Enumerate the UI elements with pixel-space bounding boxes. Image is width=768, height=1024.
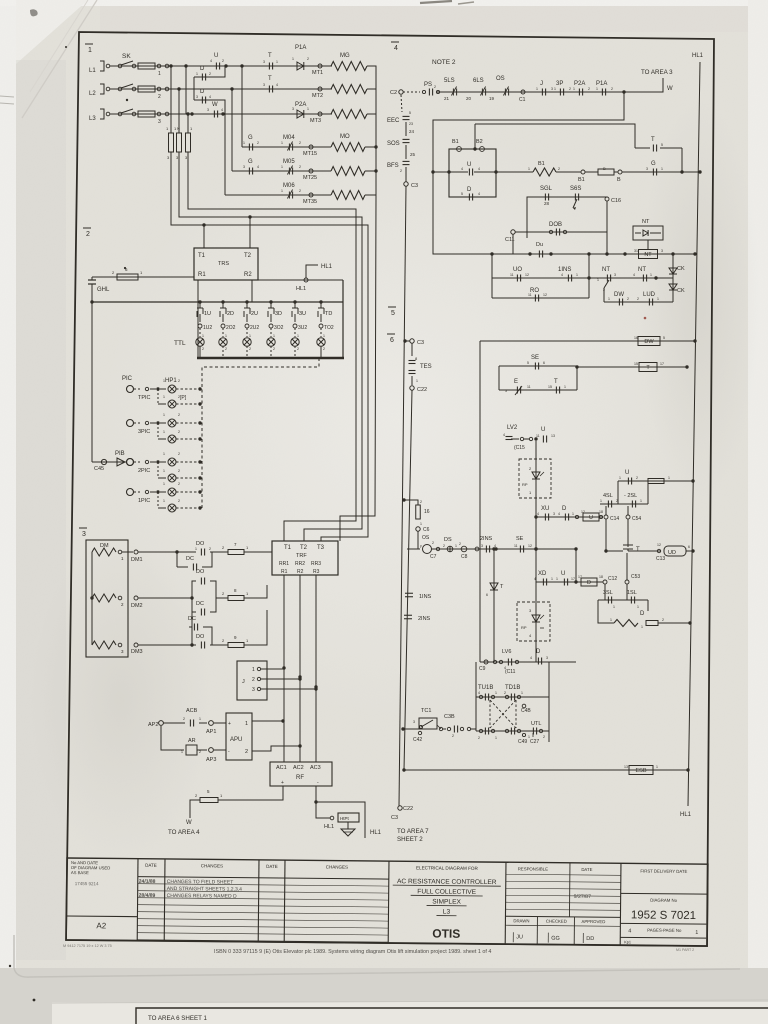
resistor MO row2 [331,167,365,176]
svg-text:1: 1 [307,107,309,111]
svg-text:PIB: PIB [115,451,125,457]
resistor MO row1 [331,134,365,152]
svg-text:16: 16 [634,336,638,340]
svg-text:1U: 1U [204,311,211,317]
wire U row upper [618,479,695,504]
svg-text:RP: RP [521,625,527,630]
svg-text:2: 2 [252,677,255,683]
svg-text:1: 1 [420,522,422,526]
svg-text:SK: SK [122,53,131,60]
svg-text:19: 19 [489,96,495,101]
svg-text:FULL COLLECTIVE: FULL COLLECTIVE [417,888,476,896]
tiny mark bottom right [676,948,694,952]
scan speck2 [124,267,126,269]
wire DOB row [515,232,607,238]
svg-text:L1: L1 [89,68,96,74]
svg-text:C22: C22 [417,387,427,393]
svg-text:DM2: DM2 [131,603,143,609]
svg-text:TO AREA 4: TO AREA 4 [168,829,200,836]
svg-text:MT3: MT3 [310,118,321,124]
node lv6 a [493,660,502,663]
node C42 [413,731,422,743]
resistor 7 [222,542,249,555]
svg-text:1: 1 [455,544,457,548]
wire DO3-res9 [210,644,228,646]
fuse N1 vertical [166,126,177,152]
svg-text:2PIC: 2PIC [138,468,150,474]
label [P] [180,395,187,401]
label TO AREA 4 [168,829,200,836]
svg-text:BFS: BFS [387,163,399,169]
fuse labels [167,155,188,160]
contact U [210,53,224,70]
svg-text:4: 4 [534,577,536,581]
thermal element 1U [196,300,213,358]
svg-text:1: 1 [495,691,497,695]
wire top row [403,91,624,93]
svg-text:4: 4 [561,273,563,277]
svg-text:AC3: AC3 [310,765,321,771]
svg-text:R1: R1 [281,569,288,575]
wire row L2 [110,88,170,90]
contact DO row3 [196,634,205,649]
contact 3SL [603,590,615,609]
wire TG box [680,148,701,174]
svg-text:1: 1 [608,297,610,301]
svg-text:C1: C1 [519,97,526,103]
node MT25 [303,169,317,181]
svg-text:y: y [420,544,422,548]
node AP3 [197,748,216,763]
contact PS [422,82,439,96]
wire MO bus right [365,147,376,195]
svg-text:2: 2 [273,347,275,351]
thermal element 2D [219,300,236,358]
node DM1 [131,550,143,563]
svg-text:T2: T2 [244,253,252,259]
wire C6 down [417,531,419,549]
svg-text:1: 1 [600,499,602,503]
svg-text:RR1: RR1 [279,561,289,567]
thermal element TD [317,300,334,358]
pilot lamp row 2PIC [127,452,202,482]
svg-text:11: 11 [528,293,532,297]
contact T right [635,137,682,152]
svg-text:APU: APU [230,737,242,743]
svg-text:4: 4 [633,273,635,277]
svg-text:11: 11 [536,434,540,438]
contact B2 coil [476,139,484,151]
ground HL1 device [324,813,359,830]
svg-text:DW: DW [614,292,624,298]
svg-text:1: 1 [416,379,418,383]
contact C3B [437,714,476,738]
svg-text:18: 18 [599,510,603,514]
node L1-c [224,64,227,67]
svg-text:4: 4 [478,691,480,695]
svg-text:3U: 3U [299,311,306,317]
second sheet top edge [52,1000,768,1003]
svg-text:4: 4 [537,512,539,516]
svg-text:1: 1 [163,452,165,456]
wire crossover left [475,662,477,697]
paper shade left [16,60,66,960]
wire row L3 [110,113,170,115]
wire RF minus [314,786,330,818]
svg-text:2: 2 [178,379,180,383]
svg-text:2: 2 [662,618,664,622]
label TO AREA 7 [397,828,429,835]
svg-text:13: 13 [551,434,555,438]
svg-text:AC1: AC1 [276,765,287,771]
svg-text:28/4/89: 28/4/89 [139,893,156,899]
svg-text:C6: C6 [423,527,430,533]
node C27 [530,733,539,745]
TRF labels [279,545,325,575]
wire drop L3 fuse [187,114,189,133]
svg-text:17: 17 [578,575,582,579]
crossover dashed X [490,700,516,728]
svg-text:T: T [636,547,640,553]
contact Du [528,242,552,258]
svg-text:RR2: RR2 [295,561,305,567]
svg-text:1: 1 [243,141,245,145]
svg-text:13: 13 [624,765,628,769]
svg-text:1: 1 [163,395,165,399]
contact D upper [196,66,211,81]
svg-text:CK: CK [677,266,685,272]
svg-text:3: 3 [158,119,161,125]
label SHEET 2 [397,836,423,843]
node T2 feed [248,215,251,218]
svg-text:2D: 2D [227,311,234,317]
svg-text:2: 2 [569,87,571,91]
wire C53 up [626,553,628,580]
bottom sheet edge curve [14,935,740,977]
svg-text:ELECTRICAL DIAGRAM FOR: ELECTRICAL DIAGRAM FOR [416,865,479,871]
section marker 2 [83,228,91,238]
svg-text:AP3: AP3 [206,757,216,763]
svg-text:HL1: HL1 [680,812,692,818]
svg-text:1: 1 [610,618,612,622]
node UO dots [587,276,590,279]
svg-text:Du: Du [536,242,543,248]
svg-text:C3B: C3B [444,714,455,720]
wire DS to XD [536,547,578,582]
contact UO [510,267,529,282]
fuse row L3 [138,111,155,117]
svg-text:U: U [589,515,593,521]
svg-text:2: 2 [178,499,180,503]
svg-text:ACB: ACB [186,708,198,714]
svg-text:3: 3 [292,107,294,111]
svg-text:C54: C54 [632,516,641,522]
svg-text:SE: SE [516,536,524,542]
contact XD [534,571,553,586]
wire TRF left entry [271,551,273,553]
wire HL1 link TRS [252,279,343,281]
svg-text:EEC: EEC [387,118,400,124]
contact D in box [461,187,480,201]
svg-text:1: 1 [656,765,658,769]
node C7 [430,547,440,560]
svg-text:MG: MG [340,53,350,59]
second sheet frame [136,1008,768,1024]
svg-text:T3: T3 [317,545,325,551]
svg-text:C2: C2 [390,90,397,96]
capacitor GHL [88,280,110,293]
paper blotch1 [30,540,210,860]
svg-text:1: 1 [88,47,92,54]
contact W [207,102,223,118]
contact B1 coil [452,139,461,151]
svg-text:DOB: DOB [549,222,562,228]
svg-text:3: 3 [614,273,616,277]
svg-text:L3: L3 [443,909,451,916]
svg-text:SGL: SGL [540,186,553,192]
svg-text:(C11: (C11 [505,669,516,675]
wire G row2 [232,170,331,172]
svg-text:TO2: TO2 [324,325,334,331]
svg-text:5: 5 [527,361,529,365]
svg-text:M04: M04 [283,135,295,141]
wire DM3 row [138,643,196,646]
svg-text:CHANGES: CHANGES [326,864,348,869]
svg-text:D: D [562,506,567,512]
svg-text:HP1: HP1 [165,378,177,384]
node C4B [521,704,531,714]
svg-text:DC: DC [186,556,194,562]
svg-text:2: 2 [627,297,629,301]
svg-text:1: 1 [199,717,201,721]
svg-text:2: 2 [209,547,211,551]
svg-text:P1A: P1A [295,45,306,51]
svg-text:C7: C7 [430,554,437,560]
svg-text:R1: R1 [198,272,206,278]
svg-text:P2A: P2A [295,102,306,108]
wire SGL box [527,197,607,238]
wire MT2 join [367,88,376,90]
node DS junction [494,547,497,550]
svg-text:1: 1 [163,482,165,486]
node c8b [475,547,479,551]
contact DO mid [196,569,205,585]
svg-text:C16: C16 [611,198,621,204]
svg-text:2: 2 [183,717,185,721]
svg-text:3: 3 [661,249,663,253]
contact SOS [387,139,410,147]
svg-text:M05: M05 [283,159,295,165]
svg-text:1: 1 [650,273,652,277]
svg-text:XU: XU [541,506,549,512]
svg-text:D: D [587,580,591,586]
paper shade top-right [100,6,748,32]
svg-text:1: 1 [163,430,165,434]
svg-text:D: D [536,649,541,655]
svg-text:3: 3 [481,544,483,548]
svg-text:CHANGES TO FIELD SHEET: CHANGES TO FIELD SHEET [167,879,234,886]
section marker 3 [79,528,87,538]
wire NT drop [647,240,649,250]
svg-text:3P: 3P [556,81,563,87]
svg-text:B: B [617,177,621,183]
SE box [499,366,577,390]
thermal element 2U [243,300,260,358]
svg-text:3: 3 [413,720,415,724]
wire XD row [536,580,603,583]
APU pin2 [214,744,302,755]
svg-text:C9: C9 [479,666,486,672]
svg-text:MT25: MT25 [303,175,317,181]
svg-text:4: 4 [628,928,631,934]
svg-text:3U2: 3U2 [298,325,307,331]
relay ESB boxed [624,765,658,775]
node L3-b [190,112,193,115]
terminal L2 [89,84,110,97]
svg-text:2: 2 [452,734,454,738]
svg-text:TRF: TRF [296,553,307,559]
contact 1INS [558,267,578,282]
svg-text:11: 11 [514,544,518,548]
svg-text:3: 3 [252,687,255,693]
svg-text:3O2: 3O2 [274,325,284,331]
svg-text:T: T [651,137,655,143]
node MO bus [374,145,377,172]
contact P1A [292,45,309,70]
svg-text:25: 25 [410,152,416,157]
svg-text:C42: C42 [413,737,422,743]
svg-text:11: 11 [527,385,531,389]
label C15 [514,445,525,451]
node C9 [479,660,488,672]
thermal element 3D [267,300,284,358]
svg-text:C13: C13 [656,556,665,562]
fuse 6 GHL [112,267,143,280]
wire D2 segment [194,100,225,114]
relay DW boxed [634,336,665,346]
contact BFS [387,161,410,173]
contact M04 [281,135,301,151]
svg-text:XD: XD [538,571,547,577]
contact SGL [540,186,553,206]
svg-text:3: 3 [546,656,548,660]
svg-text:UTL: UTL [531,721,541,727]
svg-text:TTL: TTL [174,340,186,347]
switch SK pole 2 [118,84,136,91]
svg-text:5: 5 [461,192,463,196]
svg-text:TES: TES [420,364,432,370]
svg-text:ESB: ESB [635,768,646,774]
svg-text:GG: GG [551,936,560,942]
paper right margin [748,0,768,1024]
svg-text:1: 1 [281,189,283,193]
svg-text:AP1: AP1 [206,729,216,735]
wire 2SL down [647,481,649,504]
svg-text:A2: A2 [96,921,106,930]
svg-text:AS BASE: AS BASE [71,870,89,875]
TRS labels [198,253,252,278]
svg-text:C49: C49 [518,739,527,745]
svg-text:C22: C22 [403,806,413,812]
wire bundle line2 [179,152,362,541]
svg-text:- 2SL: - 2SL [624,493,637,499]
svg-text:2U: 2U [251,311,258,317]
node B1 out [556,170,585,183]
svg-text:2: 2 [637,297,639,301]
svg-text:2INS: 2INS [418,616,431,622]
svg-text:D: D [200,66,205,72]
wire RF plus [218,786,283,800]
svg-text:M 9412 7175 19 x 12 W 3: M 9412 7175 19 x 12 W 3 75 [63,944,112,948]
RF labels [276,765,321,786]
contact PIB [92,451,134,472]
svg-text:1952 S 7021: 1952 S 7021 [631,909,696,922]
svg-text:NT: NT [638,267,646,273]
svg-text:SOS: SOS [387,141,400,147]
svg-text:15: 15 [634,362,638,366]
svg-text:T1: T1 [284,545,292,551]
svg-text:2: 2 [257,141,259,145]
motor DS symbol [407,541,434,554]
resistor 8 [222,588,249,601]
scan marks top edge [420,1,474,4]
relay APU box [226,713,252,760]
svg-text:2: 2 [249,347,251,351]
svg-text:HL1: HL1 [296,286,306,292]
wire UD row [604,519,661,553]
svg-text:2: 2 [400,169,402,173]
wire NT row [589,277,673,279]
svg-text:2: 2 [202,347,204,351]
svg-text:4: 4 [394,45,398,52]
svg-text:1: 1 [564,385,566,389]
svg-text:UO: UO [513,267,522,273]
node L3-c [221,112,224,115]
svg-text:11: 11 [510,273,514,277]
svg-text:2: 2 [432,541,434,545]
drawing frame border [66,32,714,946]
wire TRS R2 down [251,280,253,302]
TTL bottom bus [197,357,344,359]
svg-text:TD: TD [325,311,332,317]
svg-text:2: 2 [543,735,545,739]
second sheet below [52,1002,768,1024]
node DM2 [131,596,143,609]
svg-text:DO: DO [196,569,205,575]
crossover box [476,697,549,731]
contact G row2 [243,159,259,175]
fuse U row [648,476,670,484]
svg-text:+: + [281,780,284,786]
speck bottom-left [9,965,11,967]
contact NT changeover [597,267,616,292]
coil LV2 dashed box [519,459,551,498]
svg-text:U: U [214,53,218,59]
svg-text:DRAWN: DRAWN [513,918,529,923]
svg-text:PS: PS [424,82,432,88]
node C3 top [404,167,418,189]
node C3 mid [405,339,424,346]
contact OS [489,76,509,101]
svg-text:2: 2 [299,165,301,169]
label HL1 bottom [680,812,692,818]
thermal element 3U [291,300,308,358]
wire GHL left bus [91,290,93,462]
svg-text:B: B [603,166,606,171]
svg-text:B2: B2 [476,139,483,145]
APU pin1 [214,719,285,727]
TTL box right [342,280,344,358]
